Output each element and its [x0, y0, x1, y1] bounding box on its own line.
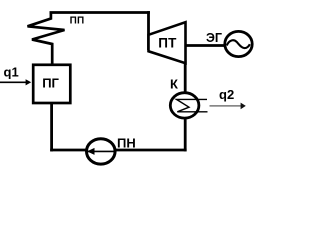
svg-text:ПН: ПН	[117, 136, 136, 151]
pump internal flow arrow	[88, 150, 115, 152]
arrow q2 heat rejection	[210, 105, 242, 107]
svg-text:ПТ: ПТ	[158, 35, 177, 50]
feed pump ПН circle	[87, 139, 116, 164]
turbine ПТ trapezoid	[149, 22, 186, 63]
condenser circle	[170, 93, 199, 118]
wire: turbine to generator shaft	[185, 44, 226, 47]
svg-text:ЭГ: ЭГ	[206, 31, 222, 45]
svg-text:К: К	[170, 76, 178, 91]
svg-text:q2: q2	[219, 87, 234, 102]
wire: vertical drop into turbine inlet	[147, 11, 150, 50]
wire: left riser to steam generator	[50, 101, 53, 151]
wire: turbine exhaust down through condenser to bottom	[184, 60, 187, 151]
wire: bottom return line	[50, 149, 186, 152]
svg-text:q1: q1	[4, 64, 19, 79]
superheater ПП zigzag element	[28, 13, 65, 67]
steam generator box ПГ	[33, 65, 70, 103]
condenser cooling coil (sigma) with water stubs	[177, 99, 208, 111]
arrow q1 heat input	[0, 81, 26, 83]
wire: top header from superheater to turbine	[50, 11, 150, 14]
generator ЭГ circle with sine	[225, 31, 252, 56]
svg-text:ПГ: ПГ	[42, 75, 59, 90]
svg-text:ПП: ПП	[70, 15, 85, 26]
